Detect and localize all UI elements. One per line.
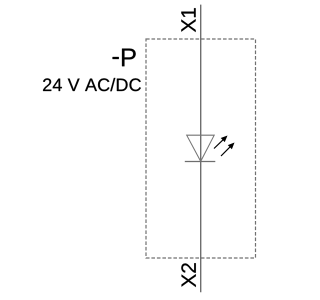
terminal enclosure (dashed module outline)	[146, 39, 256, 258]
LED lamp -P triangle (anode)	[187, 135, 215, 161]
LED emission arrow 2 shaft	[221, 146, 231, 156]
device designation -P	[113, 49, 136, 67]
LED emission arrow 1 shaft	[214, 139, 224, 148]
LED lamp -P cathode bar	[185, 161, 216, 163]
rating label 24 V AC/DC	[43, 78, 141, 91]
terminal X1 label	[181, 8, 195, 32]
LED emission arrow 1 head	[221, 136, 228, 143]
LED emission arrow 2 head	[228, 143, 235, 150]
terminal X2 label	[181, 263, 195, 287]
wire	[200, 5, 202, 293]
